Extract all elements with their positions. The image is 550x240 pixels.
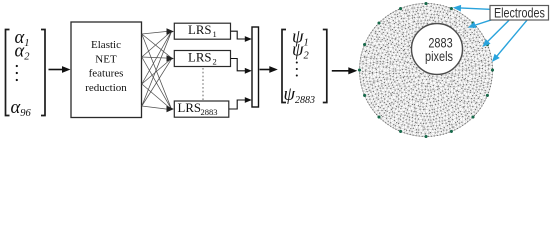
svg-text:LRS: LRS xyxy=(188,51,211,65)
svg-text:LRS: LRS xyxy=(188,23,211,37)
svg-text:2883: 2883 xyxy=(201,107,218,117)
arrow collector bar to psi vector xyxy=(260,66,278,73)
svg-text:NET: NET xyxy=(95,53,117,65)
node alpha96 entry xyxy=(11,98,32,119)
node alpha2 entry xyxy=(15,42,31,63)
node psi output vector brackets xyxy=(282,30,327,103)
box LRS1 xyxy=(174,23,230,39)
dotted wire LRS2 to LRS2883 xyxy=(202,68,204,100)
arrowhead into LRS2883 xyxy=(167,106,175,112)
svg-text:Electrodes: Electrodes xyxy=(494,5,545,21)
node psi1 entry xyxy=(292,27,309,48)
box U1 Elastic NET features reduction xyxy=(71,22,142,118)
label box Electrodes xyxy=(490,5,549,21)
svg-text:features: features xyxy=(89,68,124,80)
wire LRS2 to collector bar xyxy=(231,59,252,74)
wire fan-out Elastic NET to LRS models xyxy=(142,31,171,110)
cyan arrow 1 Electrodes to top electrode xyxy=(453,5,490,12)
svg-text:LRS: LRS xyxy=(178,101,201,115)
cyan arrow 4 Electrodes to mid-right electrode xyxy=(492,20,527,62)
svg-text:pixels: pixels xyxy=(425,49,453,65)
arrowhead into LRS2 xyxy=(167,55,175,61)
collector bar xyxy=(252,27,259,107)
vdots psi xyxy=(296,61,298,76)
svg-text:2: 2 xyxy=(213,56,217,66)
svg-text:1: 1 xyxy=(213,29,217,39)
wire LRS2883 to collector bar xyxy=(229,97,252,109)
node psi2883 entry xyxy=(284,85,316,106)
svg-text:Elastic: Elastic xyxy=(91,39,121,51)
node psi2 entry xyxy=(292,41,310,62)
node alpha1 entry xyxy=(15,28,30,49)
svg-text:reduction: reduction xyxy=(85,82,127,94)
node alpha input vector brackets xyxy=(6,30,46,116)
box LRS2 xyxy=(174,51,230,67)
cyan arrow 3 Electrodes to right electrode xyxy=(482,20,509,47)
vdots alpha xyxy=(16,65,18,81)
wire LRS1 to collector bar xyxy=(231,31,252,42)
mesh disc 2883 pixels (FEM triangulation) xyxy=(360,4,493,137)
cyan arrow 2 Electrodes to upper-right electrode xyxy=(468,20,492,28)
arrow alpha vector to Elastic NET box xyxy=(49,66,71,73)
arrow psi vector to mesh disc xyxy=(332,67,358,74)
box LRS2883 xyxy=(174,101,229,117)
arrowhead into LRS1 xyxy=(167,28,175,34)
label circle 2883 pixels xyxy=(412,24,463,75)
